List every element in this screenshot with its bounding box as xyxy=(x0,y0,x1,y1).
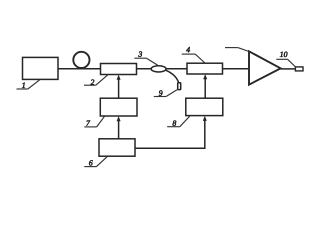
output connector 10 xyxy=(295,67,303,71)
label 1 digit xyxy=(22,83,25,88)
coupler 3 (ellipse) xyxy=(151,66,166,72)
block 7 xyxy=(100,98,137,116)
block 8 xyxy=(186,98,223,115)
arrow block6 to block7 xyxy=(117,116,121,139)
arrow block8 to block4 xyxy=(203,74,207,98)
label 9 leader xyxy=(154,90,177,97)
label 8 leader xyxy=(167,116,190,127)
block 2 (modulator) xyxy=(101,64,137,75)
wire block2 to block4 xyxy=(137,68,188,70)
block 1 (source) xyxy=(23,57,59,79)
label 4 digit xyxy=(186,47,190,52)
fiber coil xyxy=(73,52,89,68)
block 4 (modulator) xyxy=(187,63,223,74)
block 6 xyxy=(99,139,135,156)
wire amplifier to output 10 xyxy=(281,68,296,70)
label 6 leader xyxy=(84,156,107,166)
fiber pigtail to connector 9 xyxy=(165,70,178,82)
wire block6 to block8 xyxy=(135,116,207,149)
connector 9 xyxy=(178,83,181,90)
label 7 leader xyxy=(84,116,104,127)
label 9 digit xyxy=(159,90,163,95)
label 1 leader xyxy=(17,80,41,89)
wire block1 to block2 xyxy=(58,68,101,70)
wire block4 to amplifier xyxy=(223,68,250,70)
label 7 digit xyxy=(86,120,90,125)
amplifier 5 (triangle) xyxy=(249,51,281,84)
label 3 digit xyxy=(138,51,142,56)
label 3 leader xyxy=(134,58,157,65)
label 2 digit xyxy=(91,80,95,85)
label 2 leader xyxy=(84,75,108,86)
label 10 leader xyxy=(276,59,295,67)
amplifier leader (unnumbered) xyxy=(225,48,249,52)
arrow block7 to block2 xyxy=(117,75,121,99)
label 10 digits xyxy=(280,52,287,57)
label 8 digit xyxy=(173,121,177,126)
label 6 digit xyxy=(89,160,93,165)
label 4 leader xyxy=(182,54,205,63)
